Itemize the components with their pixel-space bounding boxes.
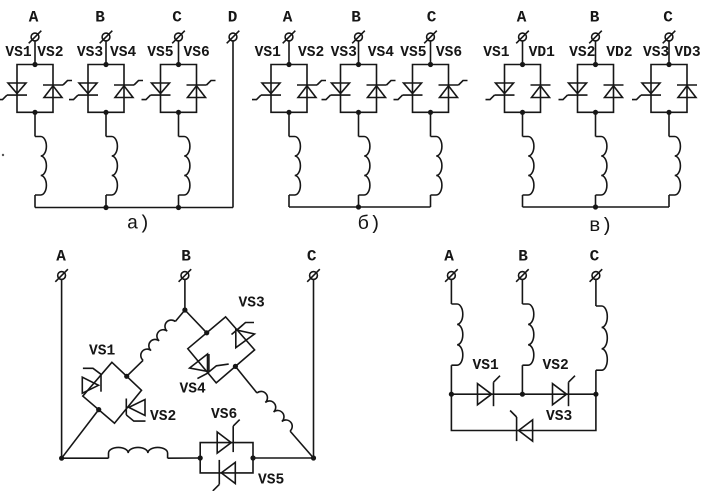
label VS4 bbox=[180, 382, 207, 398]
winding LC bbox=[596, 306, 607, 370]
wire bbox=[178, 41, 180, 65]
wire bbox=[105, 112, 107, 136]
wire bbox=[253, 457, 314, 459]
svg-text:C: C bbox=[172, 9, 182, 27]
junction bbox=[356, 204, 361, 209]
wire bbox=[521, 365, 523, 394]
wire bbox=[105, 41, 107, 65]
terminal A (delta) bbox=[55, 269, 68, 282]
antiparallel pair box VS1/VD1 bbox=[505, 65, 541, 113]
wire bbox=[62, 457, 109, 459]
label VD3 bbox=[674, 45, 701, 61]
thyristor VS3 bbox=[510, 411, 533, 442]
wire bbox=[175, 310, 185, 322]
junction bbox=[593, 392, 598, 397]
winding LA bbox=[451, 304, 462, 365]
antiparallel pair box VS3/VS4 bbox=[88, 65, 124, 113]
junction bbox=[124, 374, 129, 379]
svg-text:VS6: VS6 bbox=[436, 45, 462, 61]
svg-text:VS6: VS6 bbox=[184, 45, 210, 61]
label VS6 bbox=[184, 45, 210, 61]
wire bbox=[668, 112, 670, 136]
wire bbox=[595, 41, 597, 65]
thyristor VS1 bbox=[486, 83, 515, 100]
wire bbox=[595, 280, 597, 307]
label VS3 bbox=[77, 45, 104, 61]
wire (phase A drop) bbox=[61, 280, 63, 459]
thyristor VS4 bbox=[367, 81, 396, 98]
svg-text:VD2: VD2 bbox=[606, 45, 632, 61]
thyristor VS2 bbox=[559, 83, 588, 100]
wire bbox=[178, 195, 180, 208]
node A bbox=[29, 9, 39, 27]
svg-text:VS4: VS4 bbox=[110, 45, 137, 61]
thyristor VS5 bbox=[394, 83, 423, 100]
junction (top of VS1/VD1 box) bbox=[520, 62, 525, 67]
label VS6 bbox=[211, 407, 237, 423]
thyristor VS3 bbox=[232, 323, 255, 348]
junction bbox=[96, 407, 101, 412]
junction (bottom of VS3/VS4 box) bbox=[103, 110, 108, 115]
diode VD2 bbox=[604, 85, 624, 98]
label VS1 bbox=[255, 45, 282, 61]
junction (top of VS3/VS4 box) bbox=[103, 62, 108, 67]
label VS4 bbox=[110, 45, 137, 61]
wire bbox=[288, 41, 290, 65]
node C bbox=[172, 9, 182, 27]
node C (delta) bbox=[307, 248, 317, 266]
antiparallel pair box VS1/VS2 bbox=[271, 65, 307, 113]
junction bbox=[198, 455, 203, 460]
svg-text:VS2: VS2 bbox=[569, 45, 595, 61]
svg-text:B: B bbox=[95, 9, 105, 27]
svg-text:VS1: VS1 bbox=[5, 45, 32, 61]
junction bbox=[250, 455, 255, 460]
svg-text:C: C bbox=[307, 248, 317, 266]
junction bbox=[593, 204, 598, 209]
svg-text:VS4: VS4 bbox=[180, 382, 207, 398]
svg-text:в): в) bbox=[589, 215, 612, 237]
label VD2 bbox=[606, 45, 632, 61]
thyristor VS2 bbox=[297, 81, 326, 98]
wire bbox=[595, 195, 597, 207]
caption a) bbox=[127, 213, 150, 235]
thyristor VS4 bbox=[190, 354, 229, 379]
node B bbox=[590, 9, 600, 27]
svg-text:VS5: VS5 bbox=[147, 45, 173, 61]
wire bbox=[668, 195, 670, 207]
svg-text:A: A bbox=[517, 9, 527, 27]
winding LB (motor phase inductor) bbox=[106, 137, 117, 196]
terminal C (star) bbox=[590, 269, 603, 282]
wire (phase C drop) bbox=[313, 280, 315, 459]
antiparallel pair box VS1/VS2 (rotated) bbox=[83, 362, 142, 423]
svg-text:VS2: VS2 bbox=[543, 358, 569, 374]
label VS1 bbox=[483, 45, 510, 61]
junction bbox=[176, 205, 181, 210]
winding LC (motor phase inductor) bbox=[179, 137, 190, 196]
antiparallel pair box VS5/VS6 bbox=[200, 443, 253, 473]
junction (delta vertex A) bbox=[59, 456, 64, 461]
terminal C bbox=[663, 31, 676, 44]
terminal A (star) bbox=[445, 269, 458, 282]
label VS2 bbox=[543, 358, 569, 374]
svg-text:VS5: VS5 bbox=[258, 473, 284, 489]
wire bbox=[450, 280, 452, 305]
label VS1 bbox=[89, 344, 116, 360]
svg-text:A: A bbox=[283, 9, 293, 27]
thyristor VS3 bbox=[69, 83, 98, 100]
junction (bottom of VS3/VS4 box) bbox=[356, 110, 361, 115]
wire bbox=[34, 41, 36, 65]
thyristor VS2 bbox=[126, 399, 145, 422]
label VS2 bbox=[150, 409, 176, 425]
svg-text:VS5: VS5 bbox=[400, 45, 426, 61]
winding (delta side BC) bbox=[257, 389, 295, 431]
junction (top of VS5/VS6 box) bbox=[428, 62, 433, 67]
wire (lower loop) bbox=[451, 394, 596, 430]
junction (top of VS2/VD2 box) bbox=[593, 62, 598, 67]
junction (bottom of VS5/VS6 box) bbox=[176, 110, 181, 115]
wire bbox=[178, 112, 180, 136]
node B bbox=[351, 9, 361, 27]
svg-text:VS6: VS6 bbox=[211, 407, 237, 423]
thyristor VS1 bbox=[0, 83, 27, 100]
diode VD3 bbox=[677, 85, 697, 98]
thyristor VS3 bbox=[632, 83, 661, 100]
label VS3 bbox=[546, 409, 573, 425]
wire bbox=[105, 195, 107, 208]
label VS5 bbox=[147, 45, 173, 61]
junction bbox=[103, 205, 108, 210]
svg-text:C: C bbox=[590, 248, 600, 266]
node A bbox=[517, 9, 527, 27]
junction (bottom of VS5/VS6 box) bbox=[428, 110, 433, 115]
wire bbox=[34, 112, 36, 136]
antiparallel pair box VS1/VS2 bbox=[17, 65, 53, 113]
junction (bottom of VS1/VS2 box) bbox=[32, 110, 37, 115]
junction (delta top vertex) bbox=[182, 307, 187, 312]
svg-text:C: C bbox=[427, 9, 437, 27]
label VS3 bbox=[331, 45, 358, 61]
node A (star) bbox=[444, 248, 454, 266]
antiparallel pair box VS5/VS6 bbox=[161, 65, 197, 113]
node B (delta) bbox=[181, 248, 191, 266]
wire bbox=[34, 195, 36, 208]
junction (top of VS1/VS2 box) bbox=[32, 62, 37, 67]
winding LB (motor phase inductor) bbox=[359, 137, 370, 196]
wire bbox=[288, 112, 290, 136]
wire bbox=[358, 41, 360, 65]
svg-text:VS2: VS2 bbox=[150, 409, 176, 425]
svg-text:а): а) bbox=[127, 213, 150, 235]
svg-text:VS3: VS3 bbox=[331, 45, 358, 61]
node B (star) bbox=[518, 248, 528, 266]
svg-text:VS4: VS4 bbox=[368, 45, 395, 61]
wire (bottom bus a) bbox=[35, 207, 233, 209]
thyristor VS5 bbox=[142, 83, 171, 100]
antiparallel pair box VS3/VS4 (rotated) bbox=[188, 317, 255, 383]
label VS6 bbox=[436, 45, 462, 61]
svg-text:A: A bbox=[29, 9, 39, 27]
wire (star point bus b) bbox=[289, 206, 431, 208]
svg-text:VS1: VS1 bbox=[255, 45, 282, 61]
thyristor VS1 bbox=[82, 368, 101, 393]
terminal A bbox=[283, 31, 296, 44]
label VD1 bbox=[529, 45, 556, 61]
terminal A bbox=[29, 31, 42, 44]
terminal B (star) bbox=[516, 269, 529, 282]
junction (top of VS3/VD3 box) bbox=[666, 62, 671, 67]
label VS2 bbox=[569, 45, 595, 61]
svg-text:D: D bbox=[228, 9, 238, 27]
wire bbox=[358, 112, 360, 136]
caption b) bbox=[358, 213, 381, 235]
wire bbox=[168, 457, 201, 459]
svg-text:VS1: VS1 bbox=[483, 45, 510, 61]
terminal C (delta) bbox=[307, 269, 320, 282]
junction (top of VS5/VS6 box) bbox=[176, 62, 181, 67]
thyristor VS2 bbox=[553, 376, 576, 407]
svg-text:б): б) bbox=[358, 213, 381, 235]
winding LC (motor phase inductor) bbox=[431, 137, 442, 196]
thyristor VS5 bbox=[213, 460, 236, 491]
wire bbox=[522, 112, 524, 136]
svg-text:A: A bbox=[56, 248, 66, 266]
antiparallel pair box VS5/VS6 bbox=[413, 65, 449, 113]
terminal B (delta) bbox=[179, 269, 192, 282]
winding LA (motor phase inductor) bbox=[289, 137, 300, 196]
wire (star point bus v) bbox=[523, 206, 670, 208]
junction bbox=[449, 392, 454, 397]
svg-text:B: B bbox=[590, 9, 600, 27]
svg-text:VS3: VS3 bbox=[239, 296, 266, 312]
node C bbox=[663, 9, 673, 27]
wire bbox=[595, 112, 597, 136]
winding LB bbox=[522, 304, 533, 365]
label VS3 bbox=[643, 45, 670, 61]
thyristor VS6 bbox=[187, 81, 216, 98]
wire bbox=[430, 112, 432, 136]
thyristor VS3 bbox=[322, 83, 351, 100]
wire bbox=[288, 195, 290, 207]
thyristor VS1 bbox=[478, 376, 501, 407]
svg-text:B: B bbox=[181, 248, 191, 266]
svg-text:VS3: VS3 bbox=[77, 45, 104, 61]
wire bbox=[358, 195, 360, 207]
junction bbox=[233, 364, 238, 369]
svg-text:B: B bbox=[351, 9, 361, 27]
thyristor VS1 bbox=[252, 83, 281, 100]
junction (delta vertex C) bbox=[311, 455, 316, 460]
wire bbox=[595, 370, 597, 394]
caption v) bbox=[589, 215, 612, 237]
wire (upper bus) bbox=[451, 393, 596, 395]
junction (bottom of VS1/VS2 box) bbox=[286, 110, 291, 115]
junction (top of VS1/VS2 box) bbox=[286, 62, 291, 67]
wire bbox=[522, 195, 524, 207]
svg-text:VS1: VS1 bbox=[89, 344, 116, 360]
wire bbox=[185, 310, 207, 333]
wire bbox=[235, 366, 257, 393]
terminal B bbox=[100, 31, 113, 44]
winding LA (motor phase inductor) bbox=[523, 137, 534, 196]
node A (delta) bbox=[56, 248, 66, 266]
diode VD1 bbox=[531, 85, 551, 98]
winding (delta side AB) bbox=[138, 317, 175, 360]
stray mark bbox=[2, 154, 4, 156]
node C bbox=[427, 9, 437, 27]
wire (neutral D) bbox=[232, 41, 234, 208]
svg-text:VS1: VS1 bbox=[473, 358, 500, 374]
svg-text:VS2: VS2 bbox=[37, 45, 63, 61]
thyristor VS6 bbox=[439, 81, 468, 98]
label VS1 bbox=[5, 45, 32, 61]
label VS2 bbox=[298, 45, 324, 61]
winding LB (motor phase inductor) bbox=[596, 137, 607, 196]
svg-text:B: B bbox=[518, 248, 528, 266]
junction (top of VS3/VS4 box) bbox=[356, 62, 361, 67]
terminal C bbox=[172, 31, 185, 44]
svg-text:VD3: VD3 bbox=[674, 45, 701, 61]
node C (star) bbox=[590, 248, 600, 266]
thyristor VS4 bbox=[114, 81, 143, 98]
node D bbox=[228, 9, 238, 27]
thyristor VS2 bbox=[43, 81, 72, 98]
wire bbox=[430, 195, 432, 207]
thyristor VS6 bbox=[217, 420, 240, 454]
winding LA (motor phase inductor) bbox=[35, 137, 46, 196]
terminal B bbox=[352, 31, 365, 44]
svg-text:C: C bbox=[663, 9, 673, 27]
junction bbox=[204, 330, 209, 335]
antiparallel pair box VS2/VD2 bbox=[578, 65, 614, 113]
wire bbox=[450, 365, 452, 394]
wire bbox=[522, 41, 524, 65]
label VS1 bbox=[473, 358, 500, 374]
wire bbox=[127, 360, 143, 376]
svg-text:VS3: VS3 bbox=[643, 45, 670, 61]
junction (bottom of VS3/VD3 box) bbox=[666, 110, 671, 115]
label VS3 bbox=[239, 296, 266, 312]
terminal D bbox=[227, 31, 240, 44]
svg-text:VS2: VS2 bbox=[298, 45, 324, 61]
svg-text:A: A bbox=[444, 248, 454, 266]
label VS5 bbox=[258, 473, 284, 489]
wire (phase B drop) bbox=[184, 280, 186, 311]
label VS2 bbox=[37, 45, 63, 61]
wire bbox=[62, 410, 99, 459]
wire bbox=[521, 280, 523, 305]
winding (delta side CA) bbox=[109, 447, 168, 458]
wire bbox=[430, 41, 432, 65]
junction (bottom of VS1/VD1 box) bbox=[520, 110, 525, 115]
wire bbox=[668, 41, 670, 65]
label VS5 bbox=[400, 45, 426, 61]
antiparallel pair box VS3/VS4 bbox=[341, 65, 377, 113]
label VS4 bbox=[368, 45, 395, 61]
junction (bottom of VS2/VD2 box) bbox=[593, 110, 598, 115]
wire bbox=[290, 431, 313, 458]
node B bbox=[95, 9, 105, 27]
svg-text:VD1: VD1 bbox=[529, 45, 556, 61]
terminal B bbox=[589, 31, 602, 44]
junction bbox=[520, 392, 525, 397]
terminal C bbox=[424, 31, 437, 44]
antiparallel pair box VS3/VD3 bbox=[651, 65, 687, 113]
node A bbox=[283, 9, 293, 27]
svg-text:VS3: VS3 bbox=[546, 409, 573, 425]
winding LC (motor phase inductor) bbox=[669, 137, 680, 196]
terminal A bbox=[516, 31, 529, 44]
